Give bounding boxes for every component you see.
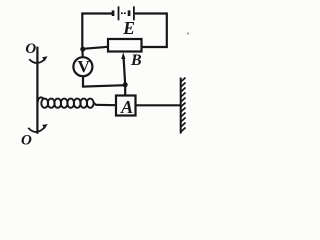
svg-text:O: O	[21, 133, 32, 149]
wire wiper to ammeter	[124, 58, 126, 96]
svg-text:B: B	[130, 52, 142, 69]
rheostat B	[108, 39, 142, 52]
svg-text:V: V	[78, 57, 91, 76]
battery E	[112, 6, 135, 20]
wire junction to rheostat left	[83, 47, 108, 49]
wire ammeter right to wall	[136, 104, 181, 106]
ammeter A	[116, 96, 136, 116]
wall	[181, 78, 186, 134]
svg-text:A: A	[120, 97, 133, 117]
wire top-right battery loop	[135, 14, 167, 48]
speck artifact	[187, 33, 189, 35]
wiper arrowhead	[121, 52, 125, 59]
inductor coil	[38, 97, 96, 107]
wire voltmeter bottom	[83, 77, 125, 87]
hook top with arrow	[29, 59, 44, 63]
node junction wiper	[123, 82, 128, 87]
wire voltmeter top	[81, 49, 83, 57]
voltmeter V	[73, 57, 92, 76]
hook bottom with arrow	[28, 127, 44, 132]
wire top-left battery loop	[82, 14, 112, 50]
node junction left	[80, 47, 85, 52]
svg-text:O: O	[25, 41, 36, 57]
svg-text:E: E	[122, 18, 135, 38]
wire OO' vertical	[36, 47, 38, 134]
wire coil to ammeter	[96, 104, 117, 107]
